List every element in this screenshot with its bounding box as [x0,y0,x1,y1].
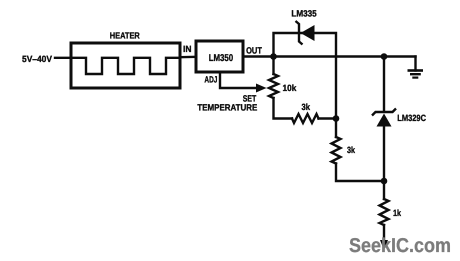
heater element square wave [71,58,180,74]
node B junction dot divider [333,115,340,122]
resistor R4 1k [380,199,389,225]
svg-text:1k: 1k [393,208,402,218]
svg-text:LM329C: LM329C [397,113,426,123]
resistor R2 3k horizontal [292,114,319,123]
wire LM350 OUT line to ground corner [243,55,416,57]
wire OUT node down to 10k pot [272,57,274,75]
svg-text:LM335: LM335 [291,9,316,19]
wire ADJ pin down [220,72,257,88]
svg-text:HEATER: HEATER [110,30,141,40]
wire input 5V-40V to heater [55,57,71,59]
wire bottom node to 1k [383,181,385,199]
svg-text:IN: IN [183,44,192,54]
diode D2 LM329C zener symbol [372,109,396,127]
regulator U1 LM350 box [196,41,243,72]
svg-text:3k: 3k [347,145,356,155]
wire LM329C to bottom node [383,127,385,181]
svg-text:5V–40V: 5V–40V [22,54,52,64]
svg-text:3k: 3k [302,102,311,112]
output arrow down [380,240,388,250]
node A junction dot OUT [270,53,277,60]
wire ground drop [414,57,416,71]
resistor R3 3k vertical [332,137,341,164]
wire pot bottom to 3k [274,98,293,119]
ground [408,71,424,78]
wire heater OUT to LM350 IN [180,56,196,59]
wire 3k to node B [319,117,337,119]
node C junction dot top right [381,53,388,60]
svg-text:ADJ: ADJ [204,74,217,84]
diode D1 LM335 zener symbol [296,21,315,45]
resistor R1 10k potentiometer body [269,74,278,98]
wire node B down to 3k vertical [335,119,337,138]
svg-text:10k: 10k [283,83,298,93]
wire 3k bottom to bottom rail [336,164,384,182]
node D junction dot bottom [381,178,388,185]
heater box [71,43,180,88]
wire LM335 branch up/over/down [274,33,337,119]
svg-text:SeekIC.com: SeekIC.com [349,235,451,257]
svg-text:TEMPERATURE: TEMPERATURE [197,103,257,113]
svg-text:LM350: LM350 [209,53,234,64]
wire 1k to output arrow [383,225,385,240]
wiper arrow of pot [256,84,267,93]
svg-text:OUT: OUT [246,46,262,56]
wire node C down to LM329C [383,57,385,112]
